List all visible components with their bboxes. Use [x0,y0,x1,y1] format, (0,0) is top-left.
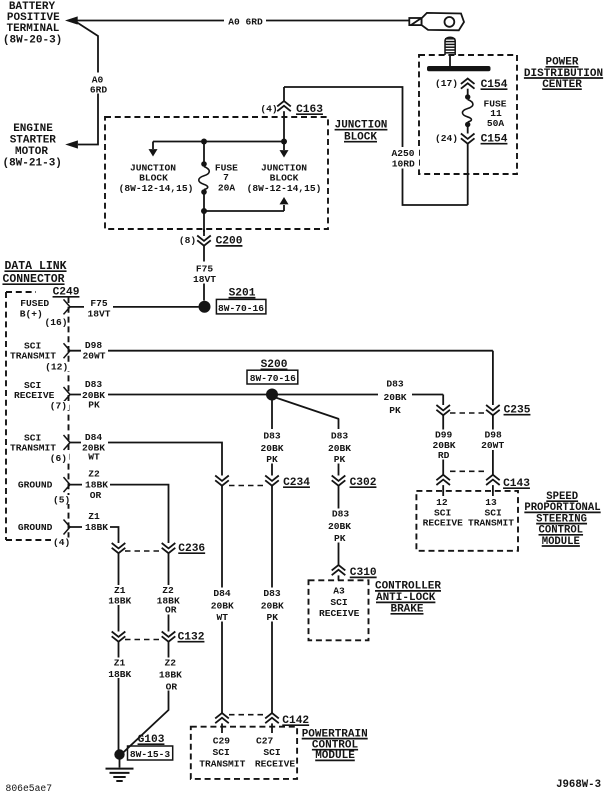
svg-text:PK: PK [334,533,346,544]
svg-text:D83: D83 [331,431,349,442]
svg-text:D83: D83 [332,509,350,520]
svg-text:(5): (5) [53,495,70,506]
svg-text:STARTER: STARTER [10,134,57,146]
svg-text:TRANSMIT: TRANSMIT [10,443,56,454]
svg-text:Z1: Z1 [88,511,100,522]
svg-text:A0 6RD: A0 6RD [228,17,263,28]
svg-text:PK: PK [334,454,346,465]
svg-text:(24): (24) [435,133,458,144]
svg-text:F75: F75 [196,264,214,275]
svg-text:OR: OR [165,605,177,616]
svg-text:B(+): B(+) [20,309,43,320]
svg-text:D98: D98 [85,340,103,351]
svg-text:806e5ae7: 806e5ae7 [6,783,53,794]
svg-text:20WT: 20WT [481,440,504,451]
svg-text:PK: PK [267,612,279,623]
svg-text:18BK: 18BK [108,596,131,607]
svg-text:TRANSMIT: TRANSMIT [199,758,245,769]
svg-text:D84: D84 [213,588,231,599]
svg-text:D83: D83 [263,431,281,442]
svg-text:SCI: SCI [213,747,231,758]
svg-text:20BK: 20BK [328,443,351,454]
svg-text:8W-70-16: 8W-70-16 [218,303,264,314]
svg-text:PK: PK [88,400,100,411]
svg-text:PK: PK [389,405,401,416]
svg-text:(7): (7) [50,401,67,412]
svg-text:SCI: SCI [330,597,348,608]
svg-text:20BK: 20BK [328,521,351,532]
svg-text:Z1: Z1 [114,585,126,596]
svg-text:7: 7 [223,172,229,183]
svg-text:Z2: Z2 [164,658,176,669]
svg-text:C29: C29 [213,736,231,747]
svg-text:D98: D98 [485,430,503,441]
svg-text:8W-70-16: 8W-70-16 [250,373,296,384]
svg-text:A3: A3 [333,586,345,597]
svg-text:6RD: 6RD [90,85,108,96]
svg-text:20A: 20A [218,183,236,194]
svg-text:Z2: Z2 [88,469,100,480]
svg-text:RECEIVE: RECEIVE [423,518,464,529]
svg-text:(16): (16) [44,317,67,328]
svg-text:20BK: 20BK [261,601,284,612]
svg-text:20BK: 20BK [211,601,234,612]
svg-text:(8): (8) [179,235,196,246]
svg-text:SCI: SCI [434,507,452,518]
svg-text:BLOCK: BLOCK [270,173,299,184]
svg-text:20BK: 20BK [383,392,406,403]
svg-text:TRANSMIT: TRANSMIT [10,351,56,362]
svg-text:Z2: Z2 [162,585,174,596]
svg-text:GROUND: GROUND [18,522,53,533]
svg-text:(17): (17) [435,78,458,89]
svg-text:OR: OR [90,490,102,501]
svg-text:C27: C27 [256,736,274,747]
svg-text:OR: OR [166,682,178,693]
svg-text:TERMINAL: TERMINAL [6,23,59,35]
svg-text:RD: RD [438,450,450,461]
svg-text:10RD: 10RD [392,159,415,170]
svg-text:FUSED: FUSED [20,298,49,309]
svg-text:TRANSMIT: TRANSMIT [468,518,514,529]
svg-text:8W-15-3: 8W-15-3 [130,749,171,760]
svg-text:(4): (4) [260,104,277,115]
svg-text:18BK: 18BK [85,522,108,533]
svg-text:D83: D83 [386,379,404,390]
svg-text:GROUND: GROUND [18,480,53,491]
svg-text:D99: D99 [435,430,453,441]
svg-text:18BK: 18BK [108,669,131,680]
svg-text:20WT: 20WT [82,351,105,362]
svg-text:20BK: 20BK [260,443,283,454]
svg-text:50A: 50A [487,118,505,129]
svg-text:18VT: 18VT [87,308,110,319]
svg-text:(8W-12-14,15): (8W-12-14,15) [119,183,194,194]
svg-text:(12): (12) [45,362,68,373]
svg-text:PK: PK [266,454,278,465]
svg-text:BLOCK: BLOCK [139,173,168,184]
svg-text:WT: WT [88,452,100,463]
svg-text:(8W-20-3): (8W-20-3) [3,35,62,47]
svg-text:(8W-21-3): (8W-21-3) [2,157,61,169]
svg-text:WT: WT [217,612,229,623]
svg-text:18VT: 18VT [193,274,216,285]
svg-text:A250: A250 [391,148,414,159]
svg-text:RECEIVE: RECEIVE [255,758,296,769]
svg-text:J968W-3: J968W-3 [556,779,601,791]
svg-text:(4): (4) [53,537,70,548]
svg-text:(6): (6) [50,453,67,464]
svg-text:RECEIVE: RECEIVE [319,608,360,619]
svg-text:D84: D84 [85,432,103,443]
svg-text:(8W-12-14,15): (8W-12-14,15) [247,183,322,194]
svg-text:18BK: 18BK [159,670,182,681]
svg-text:SCI: SCI [263,747,281,758]
svg-text:SCI: SCI [485,507,503,518]
svg-text:D83: D83 [263,588,281,599]
svg-text:Z1: Z1 [114,658,126,669]
svg-text:D83: D83 [85,379,103,390]
svg-text:RECEIVE: RECEIVE [14,390,55,401]
